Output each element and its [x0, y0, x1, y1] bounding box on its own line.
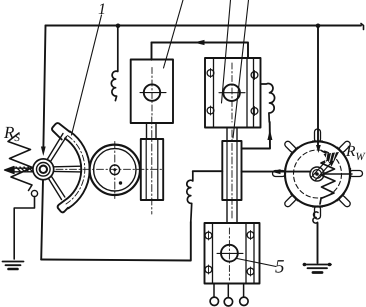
- wire left bus lower: [41, 180, 43, 260]
- wire feedback with left arrow: [152, 43, 249, 59]
- electromagnet box 5: [205, 223, 260, 284]
- ratchet wheel dashed circle: [294, 150, 342, 198]
- terminal wire 1: [213, 284, 215, 297]
- resistor RW zigzag inside wheel: [320, 151, 335, 204]
- wire coil L3 to dashpot: [193, 170, 223, 172]
- cam sector rim: [64, 131, 90, 208]
- wheel peg bottom: [313, 206, 323, 219]
- arrow right on wheel wire: [271, 169, 281, 174]
- svg-text:RW: RW: [345, 143, 365, 163]
- centerline vertical through gear: [114, 142, 116, 199]
- cam hub: [33, 159, 54, 180]
- electromagnet box 2: [205, 58, 261, 128]
- leader line for label 5: [237, 259, 276, 267]
- wire bottom bus: [41, 222, 191, 261]
- cam sector lower end tab: [58, 201, 68, 212]
- coil L1 hanging from top bus: [111, 26, 118, 101]
- leader line to box1: [164, 0, 184, 68]
- pin dot on gear: [119, 181, 122, 184]
- wheel peg SW: [282, 193, 298, 209]
- box5 screw bottom-right: [247, 267, 254, 276]
- terminal circle 2: [224, 298, 232, 306]
- wire left bus upper: [43, 26, 45, 148]
- wiper arrow of RS from cam hub: [5, 167, 34, 174]
- svg-text:1: 1: [98, 1, 106, 18]
- arrow up on coil wire: [267, 130, 272, 141]
- resistor RS zigzag: [8, 133, 33, 191]
- ground right: [303, 263, 332, 273]
- wiper arrow of RW hatched: [312, 152, 340, 180]
- svg-text:5: 5: [275, 257, 285, 278]
- terminal wire 3: [243, 284, 245, 297]
- box5 screw bottom-left: [205, 265, 212, 274]
- wheel hub: [310, 167, 324, 181]
- terminal circle 3: [240, 297, 248, 305]
- centerline vertical through roller: [151, 117, 153, 214]
- box2 screw bottom-right: [251, 107, 258, 116]
- wire RS to ground: [14, 197, 34, 260]
- ratchet wheel outer: [285, 142, 350, 207]
- terminal circle 1: [210, 297, 218, 305]
- box2 core hole: [219, 63, 245, 122]
- wheel peg right: [350, 169, 363, 179]
- centerline horizontal through gear: [56, 168, 163, 170]
- wheel peg left: [273, 169, 286, 179]
- electromagnet box 1: [131, 60, 173, 124]
- wire coil L2 down with up arrow: [242, 122, 271, 149]
- plunger rod dashpot to box5: [227, 200, 237, 223]
- ground left: [3, 262, 24, 270]
- svg-text:RS: RS: [3, 123, 20, 144]
- dashpot cylinder: [222, 130, 241, 218]
- terminal circle RS bottom: [31, 190, 37, 196]
- arrow left on feedback wire: [194, 40, 205, 45]
- arrow down on left bus: [41, 147, 46, 157]
- coil L3 left of box5: [187, 171, 193, 222]
- wire wheel to ground: [317, 224, 319, 264]
- wheel peg NE: [337, 139, 353, 155]
- leader line for label 1: [72, 15, 102, 135]
- box2 screw bottom-left: [207, 106, 214, 115]
- wire dashpot to ratchet wheel: [242, 171, 311, 173]
- coil L2 right of box2: [261, 84, 275, 122]
- node junction dot right: [316, 24, 321, 29]
- terminal wire 2: [227, 284, 229, 298]
- box5 screw top-left: [205, 231, 212, 240]
- wire top bus: [46, 24, 364, 30]
- box1 core hole: [140, 68, 166, 118]
- cam spoke lower: [49, 177, 65, 200]
- wire top bus to wheel: [317, 26, 319, 148]
- cam spoke upper: [48, 134, 67, 162]
- flexible curl below wheel: [313, 212, 318, 224]
- leader line through box2 left: [222, 0, 231, 103]
- cam spoke middle: [54, 166, 82, 172]
- cam sector upper end tab: [52, 123, 70, 139]
- leader line through box2 right: [233, 0, 249, 138]
- box5 core hole: [217, 228, 243, 280]
- roller: [141, 139, 163, 200]
- plunger rod box2 to dashpot: [227, 128, 237, 142]
- wire box1 top: [151, 43, 153, 60]
- box5 screw top-right: [247, 231, 254, 240]
- box2 screw top-right: [251, 71, 258, 80]
- gear disc: [90, 145, 140, 195]
- wheel peg NW: [282, 139, 298, 155]
- wheel peg top: [313, 129, 323, 142]
- node junction dot left: [116, 24, 121, 29]
- wire hub to right peg: [324, 173, 352, 175]
- rod from box1 to roller: [147, 123, 157, 139]
- arrow down into wheel: [316, 145, 321, 153]
- wheel peg SE: [337, 193, 353, 209]
- box2 screw top-left: [207, 69, 214, 78]
